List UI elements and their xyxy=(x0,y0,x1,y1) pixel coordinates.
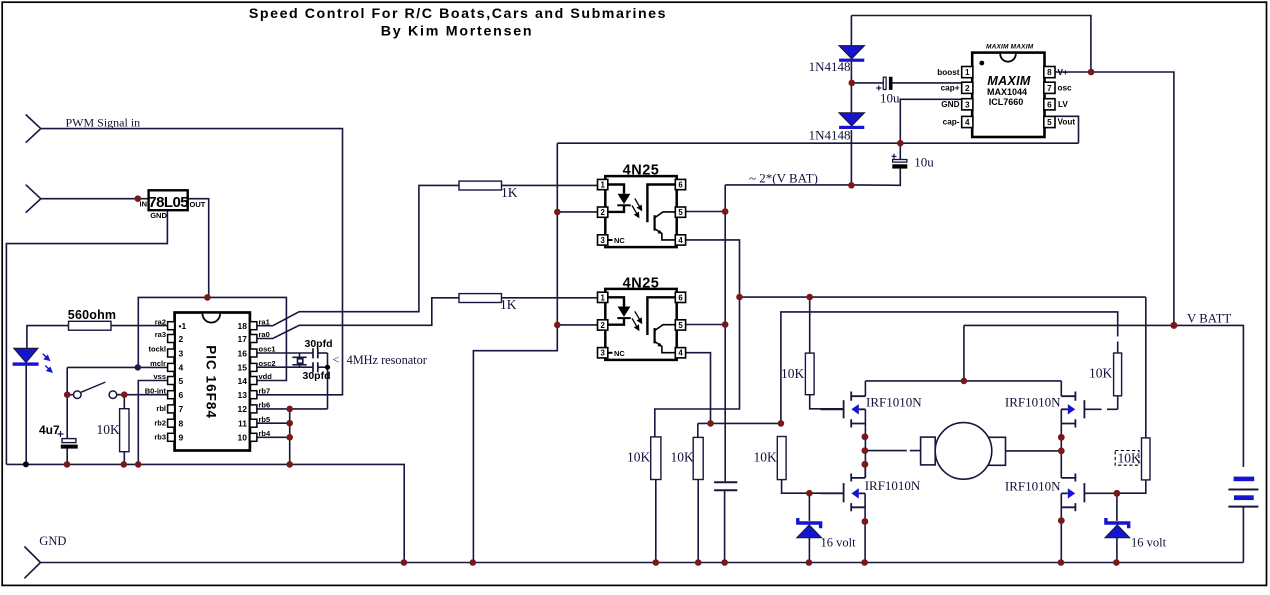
wire V+ pin to VBATT drop xyxy=(1055,72,1174,325)
svg-text:PIC 16F84: PIC 16F84 xyxy=(204,345,219,419)
svg-text:V+: V+ xyxy=(1058,68,1068,77)
wire VBATT rail xyxy=(964,325,1244,467)
wire 78L05 OUT to +5V node xyxy=(188,199,209,298)
wire bridge top rail xyxy=(865,380,1061,382)
resistor R4 1K xyxy=(459,294,517,312)
capacitor C6 10u charge xyxy=(876,77,900,106)
transistor Q1 IRF1010N xyxy=(821,392,923,428)
node rb5 tie xyxy=(286,420,293,427)
wire PWM input to rb7 xyxy=(41,129,343,395)
crystal X1 4MHz resonator xyxy=(292,357,306,365)
capacitor C1 30pfd xyxy=(313,348,318,358)
resistor R7 10K xyxy=(754,437,787,480)
node GND Vout rail junction xyxy=(897,140,904,147)
svg-text:OUT: OUT xyxy=(190,200,206,209)
node bridge rail junction xyxy=(961,378,968,385)
svg-text:Speed Control For R/C Boats,Ca: Speed Control For R/C Boats,Cars and Sub… xyxy=(249,6,667,22)
wire Vout rail to opto cathodes and ground xyxy=(473,143,557,562)
LED D3 xyxy=(13,348,52,372)
wire resistor E bottom to M1 gate xyxy=(810,395,844,409)
svg-text:10u: 10u xyxy=(914,155,934,170)
node 10K bus junction xyxy=(121,461,128,468)
svg-text:cap+: cap+ xyxy=(941,84,960,93)
svg-text:10K: 10K xyxy=(97,422,121,437)
wire motor left lead xyxy=(865,450,920,452)
node 78L05 input junction xyxy=(135,195,142,202)
wire 4u7 bottom lead xyxy=(66,447,68,464)
svg-text:IRF1010N: IRF1010N xyxy=(1005,478,1061,493)
wire gate net B up to right top gate xyxy=(781,312,1118,424)
wire charge cap right to cap+ pin xyxy=(892,82,961,84)
connector PWM input xyxy=(26,115,41,143)
wire opto2 pin2 to rail xyxy=(557,324,597,326)
wire ra0 diagonal to 1K R4 xyxy=(257,298,459,339)
wire motor right lead xyxy=(1006,450,1062,452)
svg-text:11: 11 xyxy=(238,419,247,429)
node opto2 pin2 junction xyxy=(554,322,561,329)
node M3 source xyxy=(862,518,869,525)
pin boxes left U1 xyxy=(168,322,175,442)
connector GND xyxy=(24,547,40,579)
svg-text:17: 17 xyxy=(238,334,248,344)
node ground rail bus drop xyxy=(401,559,408,566)
svg-text:8: 8 xyxy=(1047,68,1052,77)
wire osc2 row xyxy=(257,366,313,368)
svg-text:4: 4 xyxy=(965,118,970,127)
diode D1 1N4148 xyxy=(809,46,865,74)
svg-text:IN: IN xyxy=(140,200,148,209)
node gate net B opto tie xyxy=(707,420,714,427)
svg-text:1: 1 xyxy=(601,181,606,190)
svg-text:NC: NC xyxy=(614,236,625,245)
resistor R6 10K xyxy=(671,437,704,479)
transistor Q3 IRF1010N xyxy=(821,474,921,512)
svg-text:6: 6 xyxy=(678,181,683,190)
wire ra1 diagonal to 1K R3 xyxy=(257,185,459,325)
svg-text:6: 6 xyxy=(678,293,683,302)
wire resonator common down to rb6 xyxy=(327,353,329,409)
svg-text:1N4148: 1N4148 xyxy=(809,59,851,74)
opto U4 internal LED xyxy=(608,297,624,324)
wire 1K R4 to opto2 pin1 xyxy=(502,297,598,299)
wire opto2 pin5 to collector rail xyxy=(685,324,726,326)
node 10K tap on B0-int xyxy=(121,391,128,398)
node gate net A opto tie xyxy=(736,294,743,301)
wire 78L05 GND down-left-down to ground bus xyxy=(6,210,167,464)
node ground rail R6 xyxy=(695,559,702,566)
node ground rail opto drop xyxy=(470,559,477,566)
svg-text:5: 5 xyxy=(678,321,683,330)
capacitor C7 10u reservoir xyxy=(892,154,935,170)
svg-text:16 volt: 16 volt xyxy=(821,535,857,549)
wire gate net B horizontal xyxy=(698,422,781,424)
svg-text:~ 2*(V BAT): ~ 2*(V BAT) xyxy=(749,170,818,185)
capacitor C5 filter xyxy=(714,482,737,490)
node ground rail D4 xyxy=(806,559,813,566)
battery B1 xyxy=(1228,477,1258,507)
svg-text:rb2: rb2 xyxy=(154,419,166,428)
opto U3 light arrows xyxy=(632,199,642,218)
wire gate net A horizontal xyxy=(740,296,1146,298)
pin labels U1 left xyxy=(145,317,167,441)
wire filter cap bottom lead xyxy=(724,491,726,563)
node ground rail C5 xyxy=(721,559,728,566)
transistor Q2 IRF1010N xyxy=(1005,392,1085,428)
wire M3 source to ground xyxy=(864,493,866,562)
svg-text:osc: osc xyxy=(1058,84,1073,93)
motor M1 xyxy=(921,423,1006,480)
svg-text:4u7: 4u7 xyxy=(39,423,60,437)
wire 1K R3 to opto1 pin1 xyxy=(502,184,598,186)
svg-text:MAXIM MAXIM: MAXIM MAXIM xyxy=(986,44,1034,51)
node M2 source motor tap xyxy=(1058,448,1065,455)
svg-text:tockl: tockl xyxy=(148,345,166,354)
wire rb5 row xyxy=(257,422,290,424)
svg-text:PWM Signal in: PWM Signal in xyxy=(66,116,141,130)
node rb-tie bus junction xyxy=(286,461,293,468)
wire opto2 pin4 to gate net B xyxy=(685,353,711,424)
svg-text:IRF1010N: IRF1010N xyxy=(1005,395,1061,410)
svg-text:osc2: osc2 xyxy=(259,359,276,368)
svg-text:13: 13 xyxy=(238,390,248,400)
wire osc2 cap to common junction xyxy=(318,366,327,368)
wire osc1 cap to common xyxy=(318,352,327,354)
pin numbers U1 left xyxy=(179,321,187,443)
svg-text:ra3: ra3 xyxy=(155,330,166,339)
wire Vout horizontal rail xyxy=(557,142,1078,144)
node M4 source xyxy=(1058,517,1065,524)
node +5V junction xyxy=(204,294,211,301)
connector input 2 xyxy=(26,185,41,213)
wire left zener to ground xyxy=(808,493,810,562)
wire diode column xyxy=(850,16,852,186)
svg-text:4MHz resonator: 4MHz resonator xyxy=(347,353,427,367)
node ground rail R5 xyxy=(653,559,660,566)
wire M2 source to M4 drain column xyxy=(1060,409,1062,478)
svg-text:ra0: ra0 xyxy=(259,330,270,339)
svg-text:B0-int: B0-int xyxy=(145,386,167,395)
wire top rail to V+ xyxy=(851,16,1091,73)
node rb4 tie xyxy=(286,434,293,441)
svg-text:8: 8 xyxy=(179,419,184,429)
capacitor C4 4u7 xyxy=(39,423,78,449)
svg-text:rb3: rb3 xyxy=(154,433,166,442)
wire opto1 pin4 to gate net A xyxy=(655,240,740,437)
svg-text:4: 4 xyxy=(678,349,683,358)
svg-text:GND: GND xyxy=(39,534,66,548)
svg-text:560ohm: 560ohm xyxy=(68,308,116,322)
node vss bus junction xyxy=(135,461,142,468)
svg-text:10K: 10K xyxy=(754,450,778,465)
svg-text:•1: •1 xyxy=(179,321,187,331)
node opto1 pin5 junction xyxy=(722,208,729,215)
wire input2 to 78L05 IN xyxy=(41,198,149,200)
diode D4 zener 16 volt xyxy=(797,518,856,549)
svg-text:7: 7 xyxy=(1047,84,1052,93)
wire GND pin to reservoir cap xyxy=(900,99,961,159)
wire resistor B bottom lead xyxy=(697,480,699,563)
regulator U2 78L05 xyxy=(140,190,206,220)
wire M4 source to ground xyxy=(1060,493,1062,562)
svg-text:rbl: rbl xyxy=(156,404,166,413)
wire mclr line to switch xyxy=(67,366,167,368)
svg-text:6: 6 xyxy=(179,390,184,400)
resistor R5 10K xyxy=(627,437,661,480)
wire collector rail vertical to filter cap xyxy=(724,185,726,481)
wire 10K R2 bottom lead xyxy=(123,452,125,465)
wire M1 drain up xyxy=(864,381,866,396)
svg-text:ICL7660: ICL7660 xyxy=(989,97,1024,107)
svg-text:MAX1044: MAX1044 xyxy=(987,87,1027,97)
wire M2 drain up xyxy=(1060,381,1062,396)
node gate net A resistor E tie xyxy=(806,294,813,301)
svg-text:osc1: osc1 xyxy=(259,345,276,354)
svg-text:rb5: rb5 xyxy=(259,415,271,424)
wire B0-int to switch right xyxy=(116,394,167,396)
svg-text:30pfd: 30pfd xyxy=(305,338,333,350)
svg-text:5: 5 xyxy=(1047,118,1052,127)
svg-text:GND: GND xyxy=(941,100,959,109)
node opto2 pin5 junction xyxy=(722,321,729,328)
wire opto1 pin2 to rail xyxy=(557,211,597,213)
node V BATT junction xyxy=(1170,322,1177,329)
svg-text:1K: 1K xyxy=(501,185,518,200)
resistor R1 560ohm xyxy=(68,308,116,330)
wire resistor A bottom lead xyxy=(655,480,657,563)
opto U3 phototransistor xyxy=(647,185,675,223)
node M3 gate zener junction xyxy=(806,490,813,497)
node switch left junction xyxy=(64,391,71,398)
svg-text:3: 3 xyxy=(179,348,184,358)
IC U1 PIC 16F84 xyxy=(145,313,276,451)
svg-text:18: 18 xyxy=(238,321,248,331)
svg-text:MAXIM: MAXIM xyxy=(987,74,1030,88)
wire opto1 pin5 to collector rail xyxy=(685,211,726,213)
resistor R9 10K xyxy=(1089,353,1122,396)
node rb6 tie xyxy=(286,406,293,413)
svg-text:15: 15 xyxy=(238,363,248,373)
svg-text:10u: 10u xyxy=(880,90,900,105)
svg-text:rb7: rb7 xyxy=(259,386,271,395)
wire osc1 row xyxy=(257,352,313,354)
svg-text:1K: 1K xyxy=(500,297,517,312)
wire resistor B top lead xyxy=(697,423,699,437)
svg-text:rb6: rb6 xyxy=(259,401,271,410)
wire switch left leg down to 4u7 xyxy=(66,367,68,438)
diode D5 zener 16 volt xyxy=(1105,518,1167,549)
resistor R2 10K xyxy=(97,409,130,452)
resistor R10 10K xyxy=(1115,438,1150,480)
wire vss to ground bus xyxy=(138,381,167,465)
node diode pump junction xyxy=(849,80,856,87)
wire LED branch from 560ohm xyxy=(27,326,69,349)
wire crystal top stub xyxy=(299,353,301,357)
diode D2 1N4148 xyxy=(809,113,865,142)
node M1 source a xyxy=(862,433,869,440)
svg-text:LV: LV xyxy=(1058,100,1068,109)
wire M2 gate resistor bottom xyxy=(1117,396,1119,410)
wire LED cathode to bus xyxy=(25,365,27,464)
svg-text:cap-: cap- xyxy=(943,118,960,127)
wire +5V rail to vdd xyxy=(138,297,286,380)
svg-text:vdd: vdd xyxy=(259,372,273,381)
svg-text:12: 12 xyxy=(238,404,248,414)
node V+ junction xyxy=(1088,69,1095,76)
svg-text:9: 9 xyxy=(179,433,184,443)
node 2xVBAT diode junction xyxy=(848,182,855,189)
switch S1 reset xyxy=(67,382,120,398)
svg-text:vss: vss xyxy=(153,372,166,381)
svg-text:6: 6 xyxy=(1047,100,1052,109)
capacitor C2 30pfd xyxy=(313,362,318,372)
wire Vout pin loop xyxy=(1055,116,1079,143)
resistor R8 10K xyxy=(781,353,814,395)
svg-text:3: 3 xyxy=(601,349,606,358)
svg-text:V BATT: V BATT xyxy=(1187,311,1231,325)
svg-text:4: 4 xyxy=(179,363,184,373)
wire M4 gate lead xyxy=(1084,492,1117,494)
wire 10K R2 top lead xyxy=(123,395,125,409)
wire crystal bottom stub xyxy=(299,365,301,367)
wire right zener connections xyxy=(1116,493,1118,562)
svg-text:1: 1 xyxy=(965,68,970,77)
pin labels U1 right xyxy=(259,317,276,438)
opto U4 phototransistor xyxy=(647,297,675,335)
svg-text:10: 10 xyxy=(238,433,248,443)
transistor Q4 IRF1010N xyxy=(1005,474,1085,512)
svg-text:10K: 10K xyxy=(671,450,695,465)
wire resistor D bottom to M3 gate xyxy=(782,480,844,494)
node resonator common xyxy=(325,365,330,370)
svg-text:3: 3 xyxy=(965,100,970,109)
node 4u7 bus junction xyxy=(64,461,71,468)
wire resistor E top lead xyxy=(809,297,811,353)
pin boxes right U1 xyxy=(250,322,257,442)
svg-text:IRF1010N: IRF1010N xyxy=(865,478,921,493)
svg-text:boost: boost xyxy=(937,68,960,77)
wire rb4 row xyxy=(257,436,290,438)
svg-text:10K: 10K xyxy=(1089,366,1113,381)
svg-text:<: < xyxy=(333,353,340,367)
svg-text:3: 3 xyxy=(601,236,606,245)
wire M2 gate lead dashed xyxy=(1084,408,1117,410)
node M1 source motor tap xyxy=(862,447,869,454)
pin numbers U1 right xyxy=(238,321,248,443)
node ground rail D5 xyxy=(1113,559,1120,566)
wire 2xVBAT label wire xyxy=(725,169,900,186)
node M2 source a xyxy=(1058,434,1065,441)
svg-text:10K: 10K xyxy=(781,366,805,381)
node mclr +5V tie xyxy=(135,364,141,370)
node ground rail M3 xyxy=(861,559,868,566)
svg-text:5: 5 xyxy=(678,208,683,217)
svg-text:NC: NC xyxy=(614,349,625,358)
svg-text:2: 2 xyxy=(601,208,606,217)
svg-text:By Kim Mortensen: By Kim Mortensen xyxy=(381,24,534,40)
svg-text:rb4: rb4 xyxy=(259,429,272,438)
svg-text:30pfd: 30pfd xyxy=(303,370,331,382)
svg-text:14: 14 xyxy=(238,376,248,386)
node M4 gate junction xyxy=(1114,490,1121,497)
wire rb6 row xyxy=(257,408,328,410)
wire rb6-rb5-rb4 tie down to bus xyxy=(289,409,291,465)
svg-text:5: 5 xyxy=(179,376,184,386)
svg-text:16: 16 xyxy=(238,348,248,358)
svg-text:2: 2 xyxy=(179,334,184,344)
wire ground rail xyxy=(41,562,1244,564)
svg-text:2: 2 xyxy=(601,321,606,330)
node ground rail M4 xyxy=(1058,559,1065,566)
node gate net B riser tie xyxy=(778,420,785,427)
svg-text:IRF1010N: IRF1010N xyxy=(866,395,922,410)
svg-text:1: 1 xyxy=(601,293,606,302)
svg-text:7: 7 xyxy=(179,404,184,414)
svg-text:16 volt: 16 volt xyxy=(1131,535,1167,549)
svg-text:ra1: ra1 xyxy=(259,317,270,326)
wire VBATT to bridge top rail xyxy=(963,325,965,381)
optocoupler U4 4N25 xyxy=(598,275,686,360)
resistor R3 1K xyxy=(459,181,518,200)
svg-text:GND: GND xyxy=(150,211,167,220)
wire M1 source to M3 drain column xyxy=(864,409,866,478)
wire ground bus horizontal xyxy=(6,464,404,562)
svg-text:ra2: ra2 xyxy=(155,317,166,326)
wire charge cap left lead xyxy=(852,82,884,84)
svg-text:2: 2 xyxy=(965,84,970,93)
opto U3 internal LED xyxy=(608,185,624,212)
node LED bus junction xyxy=(23,461,29,467)
svg-text:10K: 10K xyxy=(627,450,651,465)
svg-text:mclr: mclr xyxy=(150,359,166,368)
wire battery bottom lead xyxy=(1242,508,1244,563)
svg-text:4: 4 xyxy=(678,236,683,245)
opto U4 light arrows xyxy=(632,311,642,330)
svg-text:1N4148: 1N4148 xyxy=(809,127,851,142)
svg-text:10K: 10K xyxy=(1118,451,1142,466)
wire right gate resistor to M4 gate xyxy=(1117,297,1146,493)
svg-text:78L05: 78L05 xyxy=(148,194,188,211)
node opto1 pin2 junction xyxy=(554,209,561,216)
node M3 drain tap xyxy=(862,461,869,468)
IC U5 MAX1044 ICL7660 xyxy=(937,44,1075,138)
optocoupler U3 4N25 xyxy=(598,163,686,248)
svg-text:Vout: Vout xyxy=(1058,118,1076,127)
wire 560ohm to ra2 xyxy=(111,325,168,327)
